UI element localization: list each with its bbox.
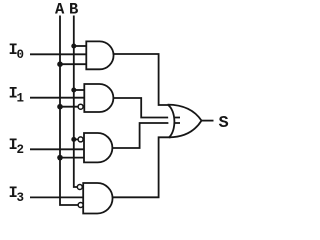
wire AND1 bottom input from A [60, 63, 86, 65]
inverter bubble AND4 bottom input from A [78, 203, 83, 208]
svg-text:0: 0 [17, 48, 25, 62]
wire AND1 output to OR top input [113, 54, 170, 105]
wire AND2 top input from B [74, 89, 85, 91]
junction dot B to AND1 [71, 44, 76, 49]
AND gate 4 (I3) [83, 183, 112, 214]
wire OR output to S [202, 120, 214, 122]
inverter bubble AND4 top input from B [77, 185, 82, 190]
wire AND2 output to OR input 2 [113, 98, 180, 118]
wire AND3 top input from B [74, 138, 78, 140]
svg-text:3: 3 [17, 191, 25, 205]
svg-text:S: S [219, 114, 229, 133]
junction dot B to AND3 [71, 137, 76, 142]
svg-text:A: A [55, 1, 65, 19]
wire AND3 bottom input from A [60, 157, 84, 159]
wire select line B vertical [74, 16, 78, 188]
wire input I1 [30, 97, 84, 99]
AND gate 1 (I0) [86, 41, 113, 69]
wire AND2 bottom input from A [60, 106, 78, 108]
wire AND1 top input from B [74, 45, 87, 47]
AND gate 2 (I1) [84, 84, 113, 112]
AND gate 3 (I2) [84, 133, 112, 162]
junction dot A to AND1 [57, 61, 63, 67]
wire AND3 output to OR input 3 [112, 123, 180, 148]
inverter bubble AND3 top input [78, 137, 83, 142]
svg-text:B: B [69, 1, 78, 19]
junction dot A to AND3 [57, 155, 63, 161]
svg-text:2: 2 [17, 143, 25, 157]
wire input I3 [30, 196, 83, 198]
OR gate U5 [168, 105, 175, 138]
inverter bubble AND2 bottom input [78, 104, 83, 109]
junction dot B to AND2 [71, 88, 76, 93]
wire AND4 output to OR bottom input [112, 137, 170, 197]
wire input I0 [30, 53, 86, 55]
junction dot A to AND2 [57, 104, 63, 110]
svg-text:1: 1 [17, 92, 25, 106]
wire select line A vertical [60, 16, 78, 206]
wire input I2 [30, 148, 84, 150]
